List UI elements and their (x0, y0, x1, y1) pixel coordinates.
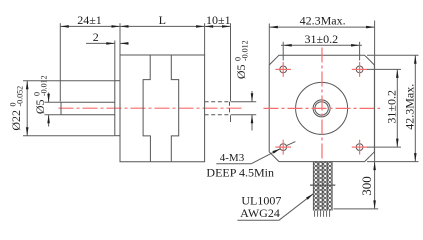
svg-text:-0.012: -0.012 (39, 75, 48, 96)
svg-text:-0.012: -0.012 (241, 40, 250, 61)
svg-text:31±0.2: 31±0.2 (305, 32, 339, 46)
svg-text:Ø22: Ø22 (9, 110, 23, 131)
svg-text:31±0.2: 31±0.2 (385, 90, 399, 124)
svg-text:L: L (159, 13, 166, 27)
svg-text:300: 300 (359, 176, 374, 196)
svg-text:AWG24: AWG24 (240, 206, 280, 220)
svg-text:Ø5: Ø5 (33, 100, 47, 115)
svg-text:-0.052: -0.052 (15, 86, 24, 107)
svg-text:24±1: 24±1 (77, 13, 102, 27)
svg-text:4-M3: 4-M3 (220, 152, 245, 164)
svg-text:DEEP 4.5Min: DEEP 4.5Min (206, 165, 274, 179)
svg-text:2: 2 (93, 30, 99, 44)
svg-text:42.3Max.: 42.3Max. (300, 13, 346, 27)
svg-text:10±1: 10±1 (206, 13, 231, 27)
svg-text:Ø5: Ø5 (234, 65, 248, 80)
svg-text:42.3Max.: 42.3Max. (403, 84, 417, 130)
